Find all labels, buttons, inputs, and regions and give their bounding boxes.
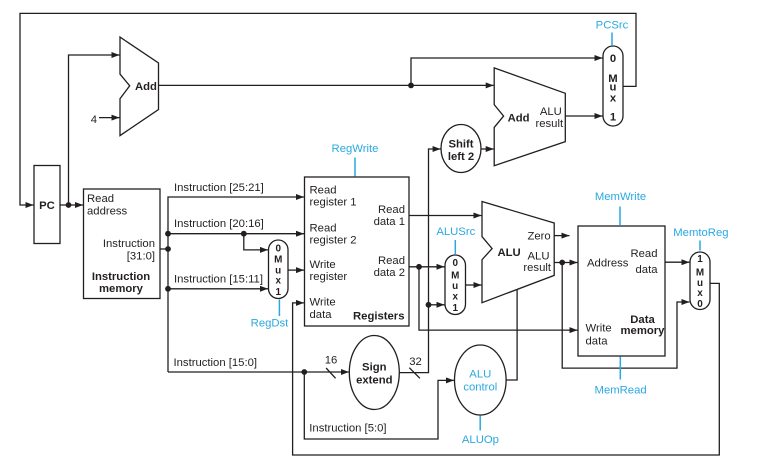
svg-text:M: M bbox=[696, 267, 704, 278]
svg-text:0: 0 bbox=[452, 258, 458, 269]
svg-text:Instruction: Instruction bbox=[103, 238, 155, 250]
svg-text:Read: Read bbox=[310, 223, 337, 235]
svg-text:x: x bbox=[452, 292, 458, 303]
svg-text:Address: Address bbox=[587, 258, 629, 270]
svg-text:data: data bbox=[586, 335, 609, 347]
svg-text:ALUOp: ALUOp bbox=[462, 434, 499, 446]
svg-text:result: result bbox=[535, 118, 563, 130]
svg-text:PCSrc: PCSrc bbox=[596, 19, 629, 31]
svg-text:Registers: Registers bbox=[353, 311, 405, 323]
svg-text:Write: Write bbox=[310, 296, 336, 308]
svg-text:extend: extend bbox=[356, 375, 393, 387]
svg-text:Sign: Sign bbox=[362, 362, 387, 374]
svg-text:Write: Write bbox=[586, 323, 612, 335]
svg-text:address: address bbox=[87, 206, 128, 218]
svg-text:Instruction [5:0]: Instruction [5:0] bbox=[309, 422, 386, 434]
svg-text:data: data bbox=[310, 309, 333, 321]
svg-text:result: result bbox=[523, 262, 551, 274]
svg-text:Read: Read bbox=[630, 248, 657, 260]
svg-text:Instruction [15:0]: Instruction [15:0] bbox=[174, 357, 258, 369]
svg-text:0: 0 bbox=[610, 53, 616, 65]
svg-text:Instruction [20:16]: Instruction [20:16] bbox=[174, 218, 264, 230]
svg-text:1: 1 bbox=[452, 303, 458, 314]
svg-text:register 2: register 2 bbox=[310, 235, 357, 247]
svg-text:x: x bbox=[275, 276, 281, 287]
svg-text:4: 4 bbox=[91, 114, 97, 126]
svg-text:x: x bbox=[697, 288, 703, 299]
svg-text:MemtoReg: MemtoReg bbox=[673, 227, 728, 239]
svg-text:left 2: left 2 bbox=[448, 151, 474, 163]
svg-text:Read: Read bbox=[310, 185, 337, 197]
svg-text:Read: Read bbox=[378, 204, 405, 216]
svg-text:1: 1 bbox=[697, 254, 703, 265]
svg-text:M: M bbox=[451, 271, 459, 282]
svg-text:ALUSrc: ALUSrc bbox=[436, 226, 475, 238]
svg-text:M: M bbox=[274, 255, 282, 266]
svg-text:Instruction [15:11]: Instruction [15:11] bbox=[174, 274, 263, 286]
svg-text:memory: memory bbox=[99, 283, 144, 295]
svg-text:x: x bbox=[610, 93, 617, 105]
svg-text:register 1: register 1 bbox=[310, 197, 357, 209]
svg-text:Read: Read bbox=[378, 255, 405, 267]
svg-text:MemWrite: MemWrite bbox=[595, 191, 646, 203]
svg-text:32: 32 bbox=[409, 356, 422, 368]
svg-text:16: 16 bbox=[325, 354, 338, 366]
svg-text:Zero: Zero bbox=[527, 231, 550, 243]
svg-text:Data: Data bbox=[630, 314, 655, 326]
svg-text:Write: Write bbox=[310, 259, 336, 271]
svg-text:data: data bbox=[636, 264, 659, 276]
svg-text:data 1: data 1 bbox=[374, 216, 405, 228]
svg-text:data 2: data 2 bbox=[374, 267, 405, 279]
svg-text:control: control bbox=[463, 381, 497, 393]
svg-text:ALU: ALU bbox=[528, 251, 550, 263]
svg-text:1: 1 bbox=[275, 287, 281, 298]
svg-text:PC: PC bbox=[39, 200, 55, 212]
svg-text:RegDst: RegDst bbox=[251, 318, 290, 330]
svg-text:RegWrite: RegWrite bbox=[332, 143, 379, 155]
svg-text:Read: Read bbox=[87, 193, 114, 205]
svg-text:0: 0 bbox=[697, 299, 703, 310]
svg-text:[31:0]: [31:0] bbox=[127, 251, 155, 263]
svg-text:Instruction [25:21]: Instruction [25:21] bbox=[174, 182, 264, 194]
svg-text:memory: memory bbox=[621, 325, 666, 337]
svg-text:Add: Add bbox=[508, 112, 530, 124]
svg-text:register: register bbox=[310, 271, 348, 283]
svg-text:ALU: ALU bbox=[469, 369, 491, 381]
svg-text:ALU: ALU bbox=[540, 106, 562, 118]
svg-text:1: 1 bbox=[610, 112, 616, 124]
svg-text:Add: Add bbox=[135, 81, 157, 93]
svg-text:ALU: ALU bbox=[498, 247, 521, 259]
svg-text:Instruction: Instruction bbox=[92, 271, 150, 283]
svg-text:0: 0 bbox=[275, 244, 281, 255]
svg-text:u: u bbox=[452, 281, 458, 292]
svg-text:u: u bbox=[610, 81, 617, 93]
svg-text:Shift: Shift bbox=[448, 139, 473, 151]
svg-text:MemRead: MemRead bbox=[595, 384, 647, 396]
